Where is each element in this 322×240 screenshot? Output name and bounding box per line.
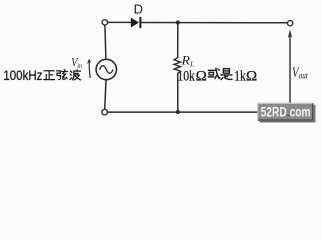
Vout measurement arrow [289,37,291,112]
Vin polarity arrow [88,60,91,78]
hanzi 弦 [57,70,68,80]
svg-text:52RD.com: 52RD.com [261,104,311,119]
svg-text:R: R [181,53,190,68]
wire top left (node to diode) [108,21,131,23]
svg-text:Ω: Ω [246,68,257,84]
wire resistor branch upper [177,23,179,58]
wire resistor branch lower [177,73,179,112]
hanzi 波 [70,70,81,80]
wire top right (diode to right node) [141,22,287,24]
junction bottom (bottom wire / resistor branch) [176,110,180,114]
source V1 (sine source circle) [96,59,116,79]
wire left branch upper (top node down to source) [105,25,106,59]
sine wave inside source [100,66,114,74]
hanzi 是 [221,69,232,80]
diode D symbol [131,17,142,28]
svg-text:L: L [189,60,194,68]
svg-text:10k: 10k [177,68,195,84]
node top-left terminal (open circle) [102,20,107,25]
svg-text:out: out [299,70,309,80]
hanzi 正 [44,71,55,80]
wire left branch lower (source down to bottom node) [105,80,106,110]
svg-text:1k: 1k [234,68,246,84]
resistor RL zigzag [174,58,180,74]
node top-right terminal (open circle) [288,21,293,26]
wire bottom (bottom node to right) [108,111,291,113]
svg-text:100kHz: 100kHz [3,68,42,83]
svg-text:in: in [77,61,82,70]
svg-text:D: D [134,2,143,17]
svg-text:Ω: Ω [196,68,207,84]
hanzi 或 [208,68,220,78]
watermark 52RD.com box [257,103,314,122]
junction top (diode line / resistor branch) [176,20,180,24]
node bottom-left terminal (open circle) [102,109,108,115]
